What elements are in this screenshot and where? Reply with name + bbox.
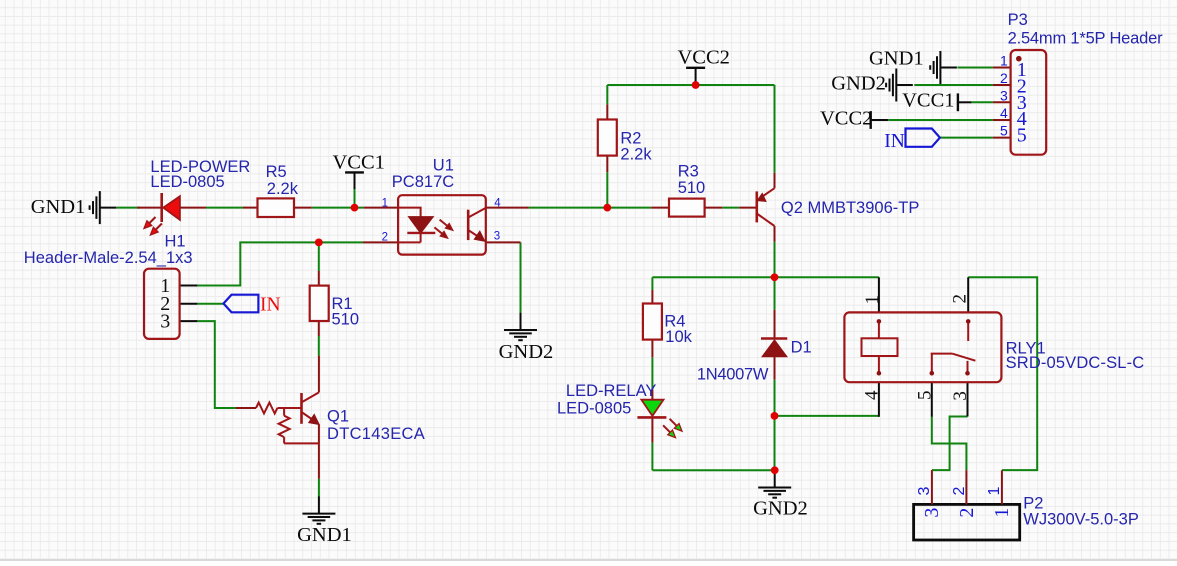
svg-text:510: 510 xyxy=(678,179,706,197)
svg-text:1N4007W: 1N4007W xyxy=(697,366,769,384)
svg-text:3: 3 xyxy=(494,231,500,243)
svg-text:2: 2 xyxy=(382,232,388,244)
svg-text:1: 1 xyxy=(862,295,883,305)
svg-text:Q1: Q1 xyxy=(327,408,349,426)
svg-text:5: 5 xyxy=(914,391,935,401)
svg-text:R5: R5 xyxy=(266,163,287,181)
svg-text:WJ300V-5.0-3P: WJ300V-5.0-3P xyxy=(1023,510,1139,528)
svg-text:VCC2: VCC2 xyxy=(678,46,730,68)
svg-text:U1: U1 xyxy=(433,156,454,174)
svg-text:SRD-05VDC-SL-C: SRD-05VDC-SL-C xyxy=(1006,354,1145,372)
svg-text:P3: P3 xyxy=(1008,11,1028,29)
svg-text:3: 3 xyxy=(950,391,971,401)
svg-text:3: 3 xyxy=(1000,87,1008,103)
svg-text:510: 510 xyxy=(332,310,360,328)
svg-text:Q2 MMBT3906-TP: Q2 MMBT3906-TP xyxy=(781,199,919,217)
svg-text:1: 1 xyxy=(1000,53,1008,69)
svg-text:4: 4 xyxy=(861,390,882,400)
svg-text:GND1: GND1 xyxy=(869,47,924,69)
svg-text:VCC1: VCC1 xyxy=(333,152,385,174)
svg-text:3: 3 xyxy=(921,508,943,518)
svg-text:LED-0805: LED-0805 xyxy=(150,173,224,191)
svg-text:2: 2 xyxy=(1000,70,1008,86)
svg-text:VCC2: VCC2 xyxy=(820,108,872,130)
svg-text:GND2: GND2 xyxy=(831,72,886,94)
svg-text:VCC1: VCC1 xyxy=(902,89,954,111)
svg-text:IN: IN xyxy=(260,294,281,315)
svg-text:H1: H1 xyxy=(165,233,186,251)
svg-text:5: 5 xyxy=(1000,123,1008,139)
svg-text:PC817C: PC817C xyxy=(392,173,454,191)
svg-text:5: 5 xyxy=(1017,125,1027,147)
svg-text:D1: D1 xyxy=(791,339,812,357)
svg-text:1: 1 xyxy=(382,198,388,210)
svg-text:GND2: GND2 xyxy=(499,341,554,363)
svg-text:2.2k: 2.2k xyxy=(267,180,299,198)
svg-text:4: 4 xyxy=(494,198,501,210)
svg-text:4: 4 xyxy=(1000,105,1008,121)
svg-text:2.54mm 1*5P Header: 2.54mm 1*5P Header xyxy=(1008,30,1163,48)
svg-text:GND1: GND1 xyxy=(31,196,86,218)
svg-text:LED-0805: LED-0805 xyxy=(557,400,631,418)
svg-text:DTC143ECA: DTC143ECA xyxy=(327,425,425,443)
svg-text:2: 2 xyxy=(951,486,968,495)
svg-text:2: 2 xyxy=(956,508,978,518)
svg-text:3: 3 xyxy=(916,486,933,495)
svg-text:Header-Male-2.54_1x3: Header-Male-2.54_1x3 xyxy=(24,249,193,267)
svg-text:GND2: GND2 xyxy=(753,498,808,520)
svg-text:GND1: GND1 xyxy=(297,524,352,546)
svg-text:R3: R3 xyxy=(678,163,699,181)
svg-text:3: 3 xyxy=(160,311,170,333)
svg-text:2: 2 xyxy=(950,294,971,304)
svg-text:1: 1 xyxy=(991,508,1013,518)
svg-text:IN: IN xyxy=(884,131,905,152)
svg-text:LED-RELAY: LED-RELAY xyxy=(566,382,656,400)
svg-text:2.2k: 2.2k xyxy=(620,146,652,164)
svg-text:1: 1 xyxy=(986,486,1003,495)
svg-text:10k: 10k xyxy=(665,328,692,346)
